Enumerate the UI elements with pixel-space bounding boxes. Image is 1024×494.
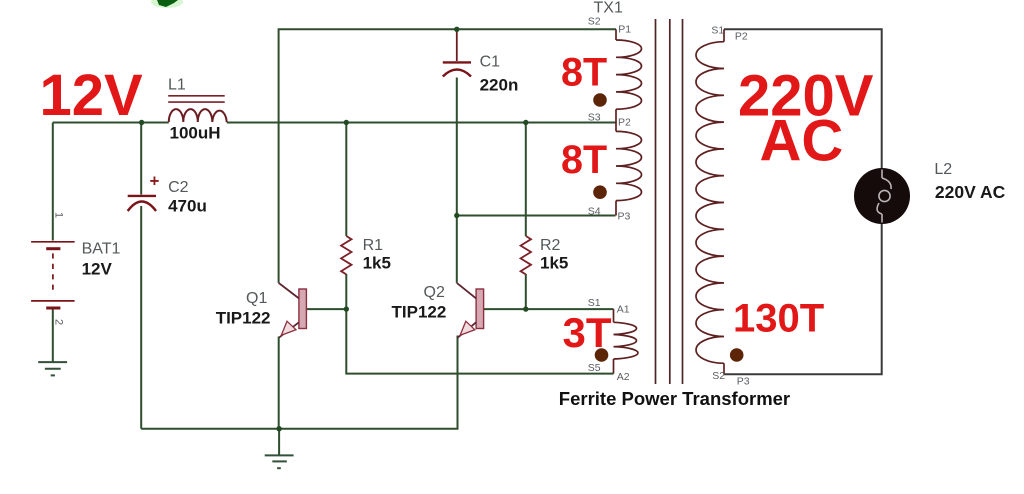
svg-text:470u: 470u <box>168 197 207 216</box>
transformer feedback winding 3T <box>614 309 638 374</box>
wire ground stub below junction <box>278 429 280 456</box>
junction node Q2 base <box>523 306 528 311</box>
wire 12V rail left segment <box>53 122 169 124</box>
svg-text:Q2: Q2 <box>424 284 445 301</box>
green cursor fragment <box>151 0 183 8</box>
wire C1 bottom to node <box>456 78 458 216</box>
phasing dot secondary <box>730 348 744 362</box>
transistor Q1 <box>279 283 307 429</box>
wire secondary loop to lamp <box>723 29 881 374</box>
svg-text:BAT1: BAT1 <box>82 240 121 257</box>
phasing dot winding1 <box>593 93 607 107</box>
svg-text:3T: 3T <box>563 309 612 356</box>
wire Q2 base <box>484 308 526 310</box>
ground emitters <box>265 455 294 468</box>
wire Q1 base cross-coupling to A2 <box>346 309 613 374</box>
svg-text:P3: P3 <box>737 375 750 387</box>
wire battery bottom lead <box>52 309 54 363</box>
wire battery top lead <box>52 123 54 241</box>
wire Q2 collector riser <box>456 216 458 283</box>
svg-text:Ferrite Power Transformer: Ferrite Power Transformer <box>559 388 790 409</box>
transistor Q2 <box>457 283 484 338</box>
svg-text:P3: P3 <box>618 211 631 223</box>
transformer primary winding bottom 8T <box>616 123 642 216</box>
svg-text:P2: P2 <box>735 31 748 43</box>
wire R1 top lead <box>345 123 347 237</box>
svg-text:P1: P1 <box>618 23 631 35</box>
svg-text:L2: L2 <box>934 161 952 178</box>
svg-text:12V: 12V <box>82 259 113 278</box>
junction node Q1 base <box>344 306 349 311</box>
wire C1 top connection <box>456 29 458 61</box>
lamp L2 <box>854 168 910 224</box>
wire emitter ground rail <box>141 336 457 429</box>
battery BAT1 <box>31 212 75 325</box>
transformer secondary winding 130T <box>696 29 724 374</box>
svg-text:P2: P2 <box>618 117 631 129</box>
svg-text:S3: S3 <box>588 111 601 123</box>
svg-text:130T: 130T <box>733 296 824 340</box>
svg-text:Q1: Q1 <box>246 290 267 307</box>
svg-text:1k5: 1k5 <box>540 254 568 273</box>
svg-text:8T: 8T <box>561 50 607 94</box>
svg-text:S5: S5 <box>588 362 601 374</box>
svg-text:1: 1 <box>53 212 65 218</box>
phasing dot winding2 <box>593 185 607 199</box>
svg-text:L1: L1 <box>168 77 186 94</box>
svg-text:8T: 8T <box>561 138 607 182</box>
svg-text:S4: S4 <box>588 205 601 217</box>
junction node on 12V rail at R2 <box>523 120 528 125</box>
svg-text:S2: S2 <box>712 370 725 382</box>
junction node on top rail at C1 <box>454 27 459 32</box>
svg-text:A2: A2 <box>617 371 630 383</box>
svg-text:C1: C1 <box>480 54 501 71</box>
wire C2 bottom to ground rail <box>140 206 142 429</box>
junction node on 12V rail at R1 <box>344 120 349 125</box>
wire Q1 base <box>306 308 346 310</box>
wire 12V rail right of L1 to P2 <box>227 122 616 124</box>
svg-text:TIP122: TIP122 <box>392 303 447 322</box>
capacitor C2 <box>128 171 160 211</box>
transformer core <box>656 19 683 384</box>
resistor R2 <box>521 236 531 274</box>
wire node to P3 <box>457 215 616 217</box>
inductor L1 <box>168 96 227 122</box>
transformer primary winding top 8T <box>616 29 642 122</box>
svg-text:R1: R1 <box>363 237 384 254</box>
wire top rail Q1 collector to P1 <box>279 29 616 283</box>
svg-text:S1: S1 <box>588 297 601 309</box>
svg-text:A1: A1 <box>617 303 630 315</box>
svg-text:TX1: TX1 <box>594 0 623 17</box>
wire C2 branch down <box>140 123 142 195</box>
svg-text:S2: S2 <box>588 15 601 27</box>
svg-text:2: 2 <box>53 319 65 325</box>
wire R2 top lead <box>525 123 527 237</box>
junction node C1/Q2 collector/P3 <box>454 213 459 218</box>
svg-text:220n: 220n <box>480 76 519 95</box>
capacitor C1 <box>443 62 471 76</box>
junction node ground rail <box>276 426 281 431</box>
wire R2 bottom lead <box>525 274 527 309</box>
wire Q2 base to A1 <box>526 308 614 310</box>
svg-text:100uH: 100uH <box>170 124 221 143</box>
svg-text:AC: AC <box>760 109 844 174</box>
svg-text:R2: R2 <box>540 237 561 254</box>
phasing dot winding3 <box>595 348 609 362</box>
junction node on 12V rail at C2 <box>139 120 144 125</box>
ground battery <box>38 362 67 375</box>
svg-text:TIP122: TIP122 <box>216 309 271 328</box>
svg-text:12V: 12V <box>40 63 144 128</box>
svg-text:C2: C2 <box>168 179 189 196</box>
svg-text:S1: S1 <box>711 24 724 36</box>
svg-text:+: + <box>150 171 160 190</box>
resistor R1 <box>341 236 351 274</box>
wire R1 bottom lead <box>345 274 347 309</box>
svg-text:1k5: 1k5 <box>363 254 391 273</box>
svg-text:220V AC: 220V AC <box>935 182 1006 202</box>
